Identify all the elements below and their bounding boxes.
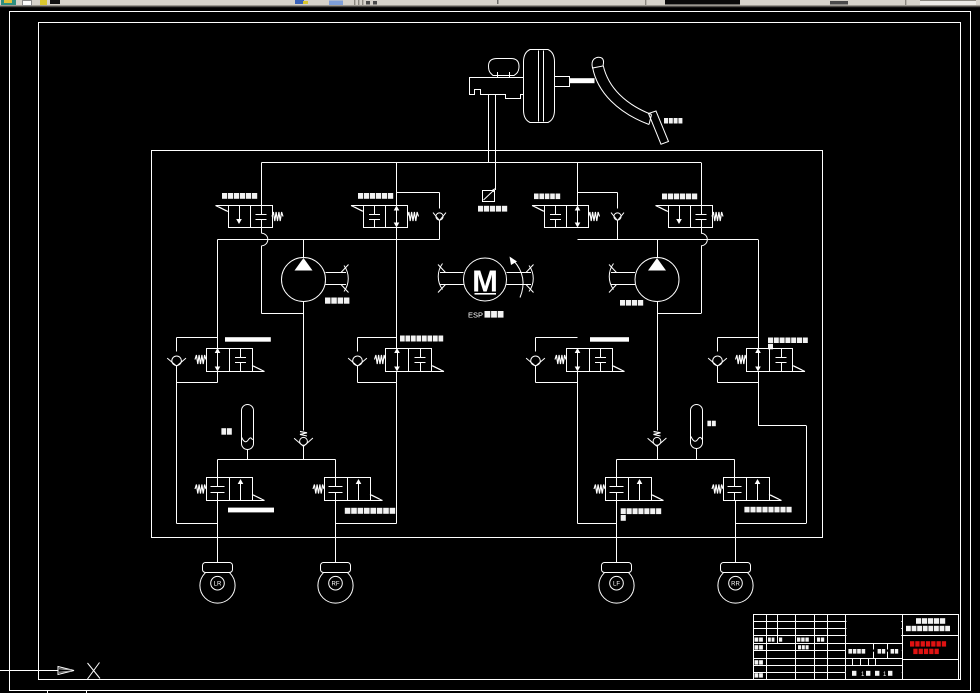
master cylinder pipe left xyxy=(488,95,490,163)
title block texts row5 design xyxy=(755,645,759,649)
UCS X label xyxy=(88,663,101,679)
wire wheel RR xyxy=(735,501,737,563)
label valve V11 line1 xyxy=(621,508,626,514)
wire RR circuit descent with jog xyxy=(758,383,760,426)
wire wheel RF xyxy=(335,501,337,563)
solenoid valve V5 (LR inlet) xyxy=(207,349,253,372)
coupler motor left xyxy=(438,264,442,290)
schematic boundary box xyxy=(152,151,823,538)
label valve V6 xyxy=(400,336,405,342)
tick below bottom border 2 xyxy=(86,691,88,693)
master cylinder pipe right xyxy=(495,95,497,190)
master-cylinder feed line xyxy=(262,162,702,164)
master cylinder body xyxy=(470,78,524,99)
svg-text:LF: LF xyxy=(613,582,620,588)
wire wheel LR xyxy=(217,501,219,563)
label valve V12 xyxy=(744,507,749,513)
label accumulator left xyxy=(221,428,226,435)
label valve V10 xyxy=(345,508,351,514)
manifold right xyxy=(617,459,735,461)
wire v1 feed xyxy=(261,163,263,206)
solenoid valve V3 (right isolation) xyxy=(545,206,589,228)
toolbar text marks xyxy=(366,1,370,5)
damper check valve left xyxy=(303,314,305,431)
toolbar combo field xyxy=(920,0,976,5)
coupler pump-right xyxy=(609,264,613,290)
title block stage mark xyxy=(848,649,852,654)
pushrod (filled) xyxy=(569,78,595,83)
jump arc V4 line xyxy=(701,228,703,234)
pump rail left xyxy=(218,239,440,241)
svg-text:RR: RR xyxy=(731,582,740,588)
wheel brake LR xyxy=(200,568,235,603)
toolbar icon black xyxy=(50,0,60,4)
pressure sensor xyxy=(483,191,495,202)
wire rail-to-V5 xyxy=(217,240,219,349)
UCS arrowhead xyxy=(58,667,74,675)
solenoid valve V2 (left isolation) xyxy=(364,206,408,228)
wire LF circuit descent xyxy=(577,383,579,524)
motor M xyxy=(464,258,507,301)
manifold left xyxy=(218,459,336,461)
bypass branch V3 xyxy=(578,192,618,194)
toolbar icon blue-pencil xyxy=(295,0,304,4)
label brake pedal xyxy=(664,118,668,124)
pedal clevis xyxy=(592,57,604,68)
wire pump-left suction xyxy=(262,313,304,315)
solenoid valve V8 (RR inlet) xyxy=(747,349,793,372)
solenoid valve V4 (right suction) xyxy=(669,206,713,228)
toolbar icon blue diamond xyxy=(329,1,343,6)
solenoid valve V11 (LF outlet) xyxy=(606,478,652,501)
toolbar icon green xyxy=(1,0,16,5)
check valve loop V8 xyxy=(718,337,759,339)
toolbar button box xyxy=(23,1,32,6)
label valve V1 xyxy=(222,193,227,199)
pump right xyxy=(635,258,679,302)
pump rail right xyxy=(578,239,759,241)
wire v4 feed xyxy=(701,163,703,206)
label valve V8R line1 xyxy=(768,338,773,344)
label valve V11 line2 xyxy=(621,515,626,521)
accumulator left xyxy=(242,405,254,450)
label pump right xyxy=(620,300,625,306)
vacuum booster xyxy=(524,50,555,123)
pedal pad xyxy=(649,111,669,144)
solenoid valve V7 (LF inlet) xyxy=(567,349,613,372)
title block texts row4 xyxy=(755,638,759,642)
check valve loop V6 xyxy=(358,337,397,339)
label pressure sensor xyxy=(478,206,483,212)
title block sheet count xyxy=(852,671,856,676)
damper check valve right xyxy=(657,314,659,431)
solenoid valve V10 (RF outlet) xyxy=(325,478,371,501)
jump arc V1 line xyxy=(261,228,263,234)
title block school name xyxy=(916,618,921,624)
wire rail-to-V8R xyxy=(758,240,760,349)
booster pushrod hub xyxy=(555,77,570,87)
wheel brake RF xyxy=(318,568,353,603)
wire v3 feed xyxy=(577,163,579,206)
bypass check valve V2 xyxy=(436,213,443,220)
label valve V3 xyxy=(534,194,539,200)
svg-text:LR: LR xyxy=(214,582,222,588)
wire wheel LF xyxy=(616,501,618,563)
wire RF circuit descent xyxy=(396,383,398,524)
accumulator right xyxy=(691,405,703,449)
white bar label V9 xyxy=(228,508,274,513)
toolbar strip xyxy=(0,0,980,6)
toolbar separators xyxy=(354,0,355,5)
pedal arm xyxy=(593,67,650,125)
wheel brake LF xyxy=(599,568,634,603)
wire v2 feed xyxy=(396,163,398,206)
label pump left xyxy=(325,298,331,304)
bypass branch V2 xyxy=(397,192,440,194)
label accumulator right xyxy=(707,421,711,427)
shaft pump-left to motor xyxy=(326,272,347,274)
svg-text:RF: RF xyxy=(332,582,340,588)
tick below bottom border 1 xyxy=(47,691,49,693)
solenoid valve V9 (LR outlet) xyxy=(207,478,253,501)
brake fluid reservoir xyxy=(489,59,520,76)
wire pump-right suction xyxy=(657,313,701,315)
UCS X-axis line xyxy=(0,670,58,672)
label valve V8R line2 xyxy=(768,344,773,350)
white bar label V5 xyxy=(225,337,271,342)
svg-text:ESP: ESP xyxy=(468,313,483,320)
bypass check valve V3 xyxy=(614,213,621,220)
toolbar color swatch black xyxy=(665,0,740,5)
label valve V4 xyxy=(662,194,667,200)
wire V2-to-V6 xyxy=(396,228,398,349)
check valve loop V5 xyxy=(177,337,218,339)
shaft motor to pump-right xyxy=(507,272,532,274)
wheel brake RR xyxy=(718,568,753,603)
title block xyxy=(754,615,959,680)
label valve V2 xyxy=(358,193,363,199)
toolbar icon yellow xyxy=(40,0,47,5)
solenoid valve V1 (left suction) xyxy=(229,206,273,228)
solenoid valve V12 (RR outlet) xyxy=(724,478,770,501)
wire LR circuit descent xyxy=(176,383,178,524)
motor rotation arrow xyxy=(514,261,524,298)
title block drawing title red xyxy=(910,641,914,646)
pump left xyxy=(282,258,326,302)
title block text craft xyxy=(755,673,759,677)
check valve loop V7 xyxy=(536,337,578,339)
booster diaphragm lines xyxy=(538,51,540,122)
solenoid valve V6 (RF inlet) xyxy=(386,349,432,372)
white bar label V7 xyxy=(590,337,629,342)
title block text audit xyxy=(755,660,759,664)
